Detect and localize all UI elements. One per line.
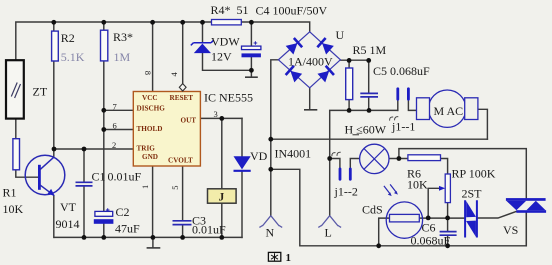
photoresistor CdS: [384, 184, 423, 238]
svg-text:47uF: 47uF: [115, 222, 140, 236]
wire CVOLT C3 column: [182, 166, 184, 237]
svg-text:VDW: VDW: [211, 35, 240, 49]
pin numbers: [112, 71, 218, 190]
wire ZT to R1 stub: [15, 119, 17, 139]
wire motor right loop: [478, 109, 488, 139]
wire j1-2 jog: [330, 159, 360, 169]
wire CdS left lead: [379, 218, 390, 246]
svg-text:C1: C1: [92, 170, 106, 184]
wire R3 column: [103, 22, 105, 237]
svg-text:R4*: R4*: [211, 3, 231, 17]
wire R1 to base: [16, 170, 38, 177]
svg-text:R3*: R3*: [113, 30, 133, 44]
transistor VT base bar: [38, 165, 41, 190]
wire j1-1 stubs: [398, 99, 417, 110]
wire CdS right row: [419, 217, 465, 219]
wire pin2 TRIG row: [54, 148, 134, 150]
svg-text:OUT: OUT: [181, 116, 197, 124]
resistor R1: [13, 139, 20, 170]
svg-text:CVOLT: CVOLT: [168, 157, 193, 165]
svg-text:VD: VD: [250, 149, 268, 163]
svg-text:L: L: [325, 226, 332, 240]
wire pin6 row: [104, 129, 134, 131]
wire RP arrow column: [428, 188, 439, 218]
potentiometer RP body: [445, 174, 450, 203]
potentiometer RP wiper arrow: [439, 186, 445, 191]
wire R2 column: [53, 22, 55, 149]
svg-text:2: 2: [112, 140, 116, 150]
transistor VT circle: [25, 155, 65, 195]
svg-text:R1: R1: [3, 186, 17, 200]
wire lamp top branch to VS: [399, 149, 526, 199]
svg-text:IC NE555: IC NE555: [204, 91, 253, 105]
IC pin names: [137, 94, 197, 164]
wire VCC pin: [152, 22, 154, 92]
relay contact j1-2: [332, 152, 350, 179]
resistor R6: [408, 155, 441, 161]
svg-text:12V: 12V: [211, 50, 232, 64]
ground bar C4: [246, 76, 257, 78]
svg-text:C5 0.068uF: C5 0.068uF: [373, 64, 430, 78]
svg-text:51: 51: [237, 3, 249, 17]
svg-text:C4 100uF/50V: C4 100uF/50V: [256, 3, 328, 17]
bridge diode bottom-right: [317, 66, 334, 83]
diode VD: [234, 156, 251, 171]
relay contact j1-1: [390, 89, 409, 121]
wire J coil column: [221, 118, 223, 237]
diac 2ST: [465, 200, 477, 237]
svg-text:C6: C6: [422, 221, 436, 235]
capacitor C1: [76, 182, 93, 186]
capacitor C3: [173, 221, 192, 225]
svg-text:1M: 1M: [114, 50, 131, 64]
svg-text:3: 3: [214, 109, 218, 119]
wire lamp to R6: [390, 158, 408, 160]
svg-text:0.068uF: 0.068uF: [411, 234, 451, 248]
svg-text:DISCHG: DISCHG: [137, 105, 166, 113]
wire emitter vertical to rail: [53, 196, 55, 238]
wire C6 stem: [447, 218, 449, 246]
svg-text:j1--1: j1--1: [391, 120, 415, 134]
relay coil J: [208, 189, 237, 204]
wire R6 to RP: [441, 159, 448, 175]
svg-text:10K: 10K: [3, 202, 24, 216]
capacitor C6: [440, 232, 457, 236]
zener diode VDW: [191, 40, 214, 53]
wire R5 stem: [348, 60, 350, 110]
wire bridge right to R5 C5: [340, 60, 368, 110]
capacitor C5: [360, 93, 378, 97]
wire VD column: [241, 118, 243, 237]
lamp H: [360, 144, 389, 173]
wire 2ST gate to VS: [477, 212, 516, 218]
svg-text:8: 8: [143, 71, 153, 75]
svg-text:THOLD: THOLD: [137, 125, 163, 133]
svg-text:VS: VS: [503, 223, 518, 237]
transistor VT emitter with arrow: [40, 185, 55, 196]
svg-text:5.1K: 5.1K: [61, 50, 85, 64]
svg-text:RESET: RESET: [170, 94, 194, 102]
svg-text:ZT: ZT: [33, 85, 48, 99]
wire GND pin column: [152, 166, 154, 237]
svg-text:CdS: CdS: [362, 203, 383, 217]
transistor VT collector: [40, 157, 54, 170]
wire motor loop bottom: [271, 138, 488, 140]
wire OUT row: [200, 117, 242, 119]
svg-text:R5 1M: R5 1M: [353, 43, 387, 57]
triac VS: [506, 198, 546, 213]
ground bar main: [147, 247, 159, 249]
IC NE555 box: [133, 92, 200, 167]
wire bridge left to N column: [271, 60, 279, 216]
svg-text:H ≤60W: H ≤60W: [345, 123, 387, 137]
svg-text:j1--2: j1--2: [334, 185, 358, 199]
RESET pin diamond: [179, 84, 186, 91]
svg-text:6: 6: [113, 121, 117, 131]
wire bottom rail: [54, 236, 242, 238]
svg-text:RP 100K: RP 100K: [452, 167, 496, 181]
bridge diode bottom-left: [286, 66, 303, 83]
svg-text:5: 5: [170, 186, 180, 190]
svg-text:U: U: [336, 28, 345, 42]
svg-text:10K: 10K: [407, 178, 428, 192]
resistor R4: [212, 20, 242, 25]
svg-text:7: 7: [113, 101, 117, 111]
wire bridge bottom: [309, 88, 311, 110]
ground stub under rail: [152, 237, 154, 247]
wire VS MT1 lower: [525, 213, 527, 246]
wire R5 R6 bottom row: [330, 110, 398, 215]
wire zener column: [203, 22, 252, 70]
bridge diode top-left: [285, 38, 302, 55]
bridge diode top-right: [317, 38, 334, 55]
capacitor C4 polarized: [242, 41, 261, 57]
svg-text:R2: R2: [61, 31, 75, 45]
ground bar bridge: [305, 109, 317, 111]
svg-text:IN4001: IN4001: [275, 147, 312, 161]
terminal N: [259, 216, 282, 228]
svg-text:VCC: VCC: [142, 94, 158, 102]
svg-text:1: 1: [286, 252, 292, 264]
svg-text:1: 1: [140, 185, 150, 189]
capacitor C2 polarized: [94, 208, 114, 224]
svg-text:2ST: 2ST: [462, 187, 483, 201]
transducer ZT: [6, 60, 24, 118]
wire RP bottom stem: [447, 203, 449, 218]
caption figure 1: [268, 252, 291, 264]
svg-text:M AC: M AC: [434, 104, 464, 118]
svg-text:J: J: [219, 192, 225, 204]
svg-text:0.01uF: 0.01uF: [192, 223, 226, 237]
svg-text:C2: C2: [116, 205, 130, 219]
wire RESET pin: [182, 22, 184, 83]
wire pin7 row: [104, 109, 134, 111]
resistor R5: [346, 68, 353, 100]
wire C4 column: [250, 22, 252, 77]
bridge rectifier outline: [278, 32, 340, 88]
terminal L: [318, 216, 341, 228]
svg-text:0.01uF: 0.01uF: [108, 170, 142, 184]
svg-text:1A/400V: 1A/400V: [288, 55, 333, 69]
wire C1 column: [83, 149, 85, 237]
resistor R3: [101, 30, 108, 61]
svg-text:GND: GND: [142, 153, 158, 161]
wire N frame bottom right: [271, 169, 527, 246]
motor M AC: [417, 90, 478, 127]
wire top rail: [16, 22, 310, 61]
svg-text:TRIG: TRIG: [137, 144, 156, 152]
svg-text:VT: VT: [60, 200, 77, 214]
svg-text:9014: 9014: [56, 217, 80, 231]
svg-text:N: N: [266, 226, 275, 240]
wire collector vertical: [53, 149, 55, 157]
resistor R2: [52, 31, 59, 61]
